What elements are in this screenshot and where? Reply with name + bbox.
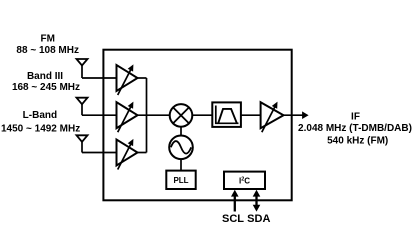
PLL block xyxy=(166,171,195,189)
label FM band xyxy=(16,34,79,56)
wire ANT2 to LNA2 xyxy=(82,114,117,116)
mixer xyxy=(170,104,193,127)
svg-text:I2C: I2C xyxy=(239,176,250,185)
label IF output frequencies xyxy=(298,111,412,146)
wire ANT1 to LNA1 xyxy=(82,77,117,79)
antenna ANT1 (FM) xyxy=(77,59,88,78)
amplifier LNA2 (Band III) xyxy=(117,102,138,133)
svg-text:FM: FM xyxy=(40,34,54,45)
svg-text:SDA: SDA xyxy=(247,213,270,225)
amplifier LNA1 (FM) xyxy=(117,64,138,95)
antenna ANT2 (Band III) xyxy=(77,98,88,116)
svg-text:1450 ~ 1492 MHz: 1450 ~ 1492 MHz xyxy=(1,123,80,134)
wire mixer to local oscillator xyxy=(180,127,182,136)
amplifier LNA3 (L-Band) xyxy=(117,139,138,170)
svg-text:IF: IF xyxy=(351,111,360,122)
svg-text:L-Band: L-Band xyxy=(23,110,57,121)
svg-text:540 kHz (FM): 540 kHz (FM) xyxy=(327,135,388,146)
wire ANT3 to LNA3 xyxy=(82,152,117,154)
wire LNA1 output to bus xyxy=(138,77,147,79)
label L-Band xyxy=(1,110,80,134)
label SCL xyxy=(222,213,244,225)
wire mixer to IF filter xyxy=(192,114,212,116)
wire LNA2 output to mixer xyxy=(138,114,170,116)
svg-text:SCL: SCL xyxy=(222,213,244,225)
SDA bidirectional line with arrowheads xyxy=(253,190,261,212)
wire IF output with arrowhead xyxy=(284,111,309,119)
svg-text:88 ~ 108 MHz: 88 ~ 108 MHz xyxy=(16,45,79,56)
svg-text:2.048 MHz (T-DMB/DAB): 2.048 MHz (T-DMB/DAB) xyxy=(298,123,412,134)
SCL input line with up arrowhead xyxy=(231,190,239,212)
IF band-pass filter xyxy=(212,102,241,127)
label SDA xyxy=(247,213,270,225)
svg-text:168 ~ 245 MHz: 168 ~ 245 MHz xyxy=(12,82,80,93)
wire LNA3 output to bus xyxy=(138,152,147,154)
local oscillator xyxy=(169,136,193,160)
tuner IC block box xyxy=(103,50,291,201)
wire summing bus vertical xyxy=(146,78,148,153)
antenna ANT3 (L-Band) xyxy=(77,135,88,152)
label Band III xyxy=(12,71,80,93)
wire IF filter to IF amplifier xyxy=(241,114,261,116)
I2C interface block xyxy=(224,172,265,189)
svg-text:Band III: Band III xyxy=(27,71,63,82)
wire local oscillator to PLL xyxy=(180,160,182,171)
svg-text:PLL: PLL xyxy=(173,176,188,185)
amplifier IF output xyxy=(261,102,284,133)
